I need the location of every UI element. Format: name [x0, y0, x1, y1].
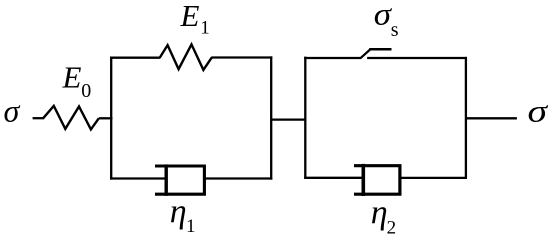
- svg-text:σ: σ: [528, 94, 549, 129]
- svg-text:1: 1: [186, 216, 196, 237]
- wire (Kelvin unit 1 left vertical riser): [110, 57, 112, 180]
- svg-text:σ: σ: [374, 0, 393, 32]
- label E0: [62, 60, 92, 103]
- dashpot eta2 piston plate: [361, 164, 365, 196]
- wire (Kelvin unit 1 top-right segment): [211, 56, 272, 58]
- wire (Kelvin unit 1 top-left segment): [110, 57, 160, 59]
- dashpot eta1 piston plate: [164, 164, 167, 195]
- svg-text:1: 1: [200, 17, 210, 38]
- svg-text:0: 0: [81, 80, 91, 102]
- node sigma (right stress terminal label): [528, 94, 549, 129]
- spring E1: [160, 44, 212, 70]
- wire (Kelvin unit 1 bottom-left rod to dashpot piston): [110, 177, 166, 179]
- wire (spring E0 to Kelvin unit 1): [99, 117, 113, 119]
- svg-text:s: s: [391, 19, 399, 41]
- label eta1: [170, 193, 196, 237]
- label eta2: [371, 195, 396, 239]
- wire (unit 2 top-left segment to slider): [304, 57, 361, 59]
- svg-text:σ: σ: [4, 93, 21, 129]
- wire (Kelvin unit 1 bottom-right rod from dashpot): [204, 177, 272, 179]
- wire (unit 2 left vertical riser): [304, 57, 306, 179]
- spring E0: [43, 106, 99, 129]
- wire (series link between unit 1 and unit 2): [270, 118, 306, 120]
- wire (unit 2 right vertical riser): [465, 57, 467, 179]
- node sigma (left stress terminal label): [4, 93, 21, 129]
- wire (Kelvin unit 1 right vertical riser): [270, 56, 272, 179]
- dashpot eta2 cylinder (top, right, bottom walls): [354, 166, 400, 195]
- wire (left terminal to spring E0): [33, 117, 45, 119]
- label E1: [180, 0, 210, 38]
- wire (unit 2 to right stress terminal): [465, 117, 517, 119]
- wire (unit 2 bottom-right rod from dashpot): [400, 177, 467, 179]
- friction slider sigma_s (upper sliding plate): [369, 48, 391, 51]
- svg-text:η: η: [371, 195, 388, 232]
- friction slider sigma_s (diagonal link): [360, 50, 370, 59]
- svg-text:E: E: [62, 60, 82, 95]
- svg-text:η: η: [170, 193, 187, 230]
- wire (unit 2 bottom-left rod to dashpot piston): [304, 177, 364, 179]
- wire (unit 2 top-right segment from slider): [367, 57, 467, 59]
- dashpot eta1 cylinder (top, right, bottom walls): [155, 166, 204, 194]
- svg-text:E: E: [180, 0, 200, 33]
- label sigma_s: [374, 0, 399, 41]
- svg-text:2: 2: [387, 217, 397, 238]
